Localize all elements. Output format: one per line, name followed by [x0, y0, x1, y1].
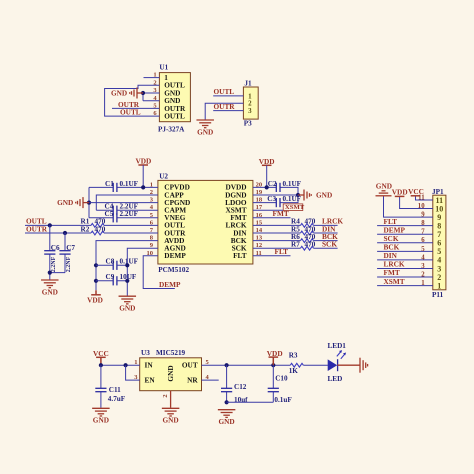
wire JP1 pin3 (LRCK): [377, 267, 433, 269]
connector U1 PJ-327A (headphone jack): [153, 64, 190, 134]
svg-text:GND: GND: [111, 88, 127, 97]
svg-text:DEMP: DEMP: [384, 225, 406, 234]
svg-text:5: 5: [421, 246, 425, 253]
wire JP1 pin11 to VCC: [416, 196, 433, 200]
svg-text:SCK: SCK: [322, 240, 337, 249]
wire U2 pin16 (FMT): [253, 217, 291, 219]
earth ground at JP1 (pointing up): [376, 182, 393, 196]
svg-text:C9: C9: [106, 273, 115, 281]
svg-text:BCK: BCK: [384, 243, 400, 252]
svg-text:470: 470: [305, 241, 316, 249]
svg-text:C7: C7: [66, 244, 75, 252]
wire J1 pin1 (OUTL): [213, 95, 243, 97]
IC U2 PCM5102: [147, 172, 263, 273]
svg-text:IN: IN: [145, 361, 154, 370]
wire U1 pin1 stub: [144, 77, 160, 79]
svg-text:U1: U1: [159, 64, 168, 72]
svg-text:XSMT: XSMT: [384, 277, 405, 286]
wire U2 pin3 (CPGND): [89, 202, 158, 204]
svg-text:4: 4: [421, 254, 425, 261]
wire C6/C7 common to ground: [50, 273, 65, 280]
svg-text:C12: C12: [234, 383, 247, 391]
svg-text:C2: C2: [268, 180, 277, 188]
wire U3 pin4 NR stub: [202, 379, 219, 381]
power VDD at U3 output: [267, 349, 283, 365]
svg-text:5: 5: [437, 247, 441, 256]
wire U2 pin11 (FLT): [253, 255, 291, 257]
svg-text:470: 470: [95, 225, 106, 233]
capacitor C12 10uf: [221, 383, 248, 404]
wire VCC to U3 IN: [101, 364, 140, 366]
svg-text:2: 2: [421, 271, 425, 278]
wire U3 pin2 GND stem: [170, 391, 172, 408]
wire JP1 pin7 (DEMP): [377, 233, 433, 235]
svg-text:PCM5102: PCM5102: [158, 266, 189, 274]
svg-text:VDD: VDD: [259, 157, 275, 166]
capacitor C5 2.2UF: [105, 210, 139, 222]
svg-text:GND: GND: [316, 190, 332, 199]
wire U1 pin2 to pin6 (OUTL loopback): [105, 85, 160, 116]
wire JP1 pin8 (FLT): [377, 225, 433, 227]
wire OUTL to U2 pin6: [25, 224, 158, 226]
node VDD/pin1: [141, 185, 145, 189]
svg-text:8: 8: [437, 221, 441, 230]
svg-text:0.1UF: 0.1UF: [120, 180, 139, 188]
power VDD at JP1: [392, 188, 408, 197]
node AVDD/C8: [94, 263, 98, 267]
svg-text:VCC: VCC: [93, 349, 109, 358]
wire JP1 pin9 to GND: [384, 196, 433, 217]
wire JP1 pin5 (BCK): [377, 250, 433, 252]
wire U2 pin2 (CAPP) to C4: [96, 195, 158, 210]
svg-text:OUTL: OUTL: [164, 112, 185, 121]
wire C11 stems: [100, 365, 102, 408]
svg-text:10: 10: [418, 203, 425, 210]
svg-text:R7: R7: [291, 241, 300, 249]
wire C7 stems: [64, 233, 66, 273]
svg-text:C6: C6: [51, 244, 60, 252]
svg-text:FLT: FLT: [384, 217, 398, 226]
svg-text:C10: C10: [275, 374, 288, 382]
svg-text:4: 4: [437, 256, 441, 265]
svg-text:R3: R3: [289, 352, 298, 360]
earth ground at J1: [196, 120, 214, 136]
svg-text:P11: P11: [432, 291, 444, 299]
wire U2 pin18 (LDOO) through C3: [253, 195, 298, 203]
svg-text:GND: GND: [42, 287, 58, 296]
svg-text:7: 7: [437, 230, 441, 239]
resistor R4 470: [291, 218, 316, 228]
wire JP1 pin2 (FMT): [377, 276, 433, 278]
svg-text:6: 6: [421, 237, 425, 244]
svg-text:GND: GND: [57, 198, 73, 207]
svg-text:2.2NF: 2.2NF: [51, 256, 57, 272]
node OUT/C12: [225, 363, 229, 367]
svg-text:SCK: SCK: [384, 234, 399, 243]
regulator U3 MIC5219: [134, 349, 209, 398]
svg-text:0.1UF: 0.1UF: [283, 180, 302, 188]
wire C12/C10 ground link: [227, 401, 274, 403]
wire U2 pin1 (CPVDD) through C1: [89, 186, 158, 188]
svg-text:OUTL: OUTL: [214, 87, 235, 96]
svg-text:FLT: FLT: [275, 247, 289, 256]
svg-text:0.1uF: 0.1uF: [274, 396, 292, 404]
earth ground below C6/C7: [41, 280, 59, 296]
svg-text:GND: GND: [166, 365, 175, 381]
capacitor C11 4.7uF: [95, 386, 125, 403]
capacitor C1 0.1UF: [105, 180, 139, 192]
svg-text:3: 3: [248, 107, 252, 115]
svg-text:DEMP: DEMP: [164, 251, 186, 260]
svg-text:OUTR: OUTR: [26, 224, 48, 233]
svg-text:1: 1: [437, 281, 441, 290]
node GND bus / pin3: [87, 201, 91, 205]
svg-text:2.2NF: 2.2NF: [66, 256, 72, 272]
svg-text:C1: C1: [105, 180, 114, 188]
connector JP1 P11: [432, 188, 446, 299]
power ground GND at DGND: [298, 190, 332, 201]
wire charge-pump GND bus: [88, 187, 90, 217]
wire U2 pin14 (DIN): [253, 232, 338, 234]
svg-text:GND: GND: [93, 416, 109, 425]
svg-text:C11: C11: [109, 386, 121, 394]
wire JP1 pin10 to VDD: [400, 196, 433, 208]
node VDD/pin20: [265, 185, 269, 189]
power VDD below analog bus: [87, 290, 103, 304]
node C12 bottom: [225, 400, 229, 404]
svg-text:11: 11: [436, 196, 444, 205]
wire U2 pin12 (SCK): [253, 247, 338, 249]
wire J1 pin3 (OUTR): [213, 110, 243, 112]
svg-text:FLT: FLT: [233, 251, 247, 260]
earth ground below C11: [92, 408, 110, 424]
svg-text:OUTL: OUTL: [120, 108, 141, 117]
svg-text:U2: U2: [159, 172, 168, 180]
capacitor C9 10UF: [96, 273, 137, 285]
svg-text:6: 6: [437, 239, 441, 248]
svg-text:GND: GND: [218, 417, 234, 426]
wire U2 pin9 (AGND) bus: [127, 248, 158, 296]
svg-text:LED1: LED1: [328, 342, 347, 350]
svg-text:DEMP: DEMP: [159, 280, 181, 289]
svg-text:2: 2: [437, 273, 441, 282]
node OUTL/C6: [48, 223, 52, 227]
svg-text:OUTR: OUTR: [214, 102, 236, 111]
svg-text:C8: C8: [106, 258, 115, 266]
svg-text:VDD: VDD: [87, 295, 103, 304]
svg-text:C5: C5: [105, 210, 114, 218]
svg-text:2: 2: [162, 394, 169, 397]
wire U2 pin10 (DEMP): [143, 256, 175, 289]
svg-text:PJ-327A: PJ-327A: [158, 126, 185, 134]
wire U2 pin17 (XSMT): [253, 209, 283, 211]
wire U2 pin5 (VNEG): [89, 217, 158, 219]
wire JP1 pin1 (XSMT): [377, 285, 433, 287]
svg-text:8: 8: [421, 220, 425, 227]
capacitor C3 0.1UF: [267, 195, 301, 207]
svg-text:7: 7: [421, 229, 425, 236]
wire U1 pin5 stub (OUTR): [112, 107, 159, 109]
earth ground below C12: [218, 410, 236, 426]
svg-text:GND: GND: [162, 416, 178, 425]
LED LED1: [328, 342, 347, 383]
svg-text:EN: EN: [145, 376, 156, 385]
svg-text:R2: R2: [81, 225, 90, 233]
svg-text:9: 9: [437, 213, 441, 222]
wire JP1 pin4 (DIN): [377, 259, 433, 261]
wire U2 pin15 (LRCK): [253, 224, 338, 226]
node AGND/C9: [125, 279, 129, 283]
svg-text:GND: GND: [197, 127, 213, 136]
wire JP1 pin6 (SCK): [377, 242, 433, 244]
wire R3 to LED: [303, 364, 328, 366]
capacitor C6 2.2NF: [44, 244, 60, 272]
node AVDD/C9: [94, 279, 98, 283]
power VCC at JP1: [408, 187, 424, 196]
wire C10 stems: [272, 365, 274, 402]
svg-text:JP1: JP1: [432, 188, 444, 196]
capacitor C2 0.1UF: [268, 180, 302, 192]
power VCC at U3 input: [93, 349, 109, 365]
node OUTR/C7: [63, 231, 67, 235]
wire U2 pin19 (DGND): [253, 194, 298, 196]
node U1 pins3/4: [141, 91, 145, 95]
connector J1 P3: [243, 80, 258, 128]
svg-text:VDD: VDD: [392, 188, 408, 197]
resistor R1 470: [81, 218, 106, 228]
wire C6 stems: [49, 225, 51, 272]
capacitor C7 2.2NF: [59, 244, 75, 272]
power ground GND at U2 charge pump: [57, 197, 89, 208]
power VDD at U2 pin1: [135, 157, 151, 188]
pin numbers JP1: [418, 194, 425, 287]
resistor R7 470: [291, 241, 316, 251]
wire U3 OUT rail: [202, 364, 291, 366]
capacitor C10 0.1uF: [268, 374, 293, 404]
svg-text:3: 3: [437, 264, 441, 273]
svg-text:LRCK: LRCK: [384, 260, 405, 269]
capacitor C4 2.2UF: [105, 203, 139, 215]
svg-text:OUT: OUT: [182, 361, 198, 370]
node C6 bottom: [48, 271, 52, 275]
svg-text:FMT: FMT: [384, 268, 400, 277]
net label XSMT (boxed): [283, 204, 305, 211]
wire U1 pins 3-4 junction tie: [143, 93, 159, 101]
wire U2 pin13 (BCK): [253, 240, 338, 242]
capacitor C8 0.1UF: [96, 258, 139, 270]
node OUT/VDD/C10: [271, 363, 275, 367]
svg-text:P3: P3: [244, 120, 252, 128]
svg-text:DIN: DIN: [384, 251, 398, 260]
svg-text:MIC5219: MIC5219: [156, 349, 186, 357]
svg-text:4.7uF: 4.7uF: [108, 395, 126, 403]
resistor R2 470: [81, 225, 106, 235]
earth ground below AGND bus: [119, 296, 137, 312]
power VDD at U2 pin20: [259, 157, 275, 188]
svg-text:NR: NR: [187, 376, 198, 385]
node VCC/C11/IN: [99, 363, 103, 367]
svg-text:10: 10: [435, 204, 443, 213]
svg-text:LED: LED: [328, 375, 343, 383]
wire J1 pin2 to ground: [205, 103, 243, 120]
wire U2 pin4 (CAPM): [96, 209, 158, 211]
wire EN tie to IN: [126, 365, 140, 380]
svg-text:GND: GND: [119, 304, 135, 313]
node EN branch: [124, 363, 128, 367]
svg-text:J1: J1: [244, 80, 252, 88]
svg-text:3: 3: [421, 263, 425, 270]
svg-text:11: 11: [418, 194, 425, 201]
svg-text:2.2UF: 2.2UF: [120, 210, 139, 218]
svg-text:1K: 1K: [289, 367, 299, 375]
svg-text:0.1UF: 0.1UF: [283, 195, 302, 203]
svg-text:1: 1: [421, 280, 425, 287]
power ground GND at U1: [111, 88, 143, 99]
wire C12 stems: [226, 365, 228, 402]
wire U2 pin20 (DVDD) through C2: [253, 187, 298, 195]
node AGND/C8: [125, 263, 129, 267]
resistor R6 470: [291, 233, 316, 243]
svg-text:GND: GND: [376, 182, 392, 191]
svg-text:FMT: FMT: [273, 209, 289, 218]
wire U2 pin8 (AVDD) bus: [96, 241, 158, 291]
power ground at LED: [337, 358, 367, 373]
wire OUTR to U2 pin7: [25, 232, 158, 234]
resistor R3 1K: [289, 352, 304, 375]
svg-text:U3: U3: [141, 349, 150, 357]
svg-text:9: 9: [421, 212, 425, 219]
earth ground below U3 pin2: [162, 408, 180, 424]
resistor R5 470: [291, 225, 316, 235]
node DGND/C2/C3: [296, 193, 300, 197]
svg-text:C3: C3: [267, 195, 276, 203]
